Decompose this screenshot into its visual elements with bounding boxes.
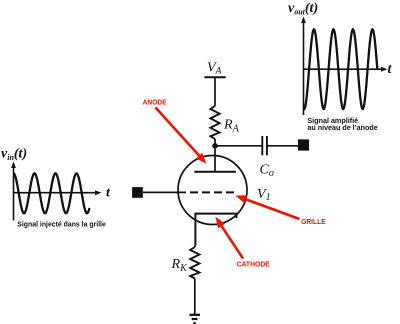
output graph x-axis xyxy=(304,67,388,72)
triode envelope V1 xyxy=(178,156,247,225)
wire R_A to anode node xyxy=(214,139,216,146)
svg-text:Signal injecté dans la grille: Signal injecté dans la grille xyxy=(17,219,106,228)
output graph y-axis xyxy=(301,17,306,116)
svg-text:t: t xyxy=(388,62,393,77)
wire input terminal to grid xyxy=(143,191,186,193)
svg-text:Co: Co xyxy=(260,163,274,180)
svg-text:au niveau de l’anode: au niveau de l’anode xyxy=(307,125,377,132)
annotation arrow CATHODE xyxy=(216,217,244,259)
svg-text:RK: RK xyxy=(171,257,189,274)
wire node to output capacitor xyxy=(215,145,262,147)
ground xyxy=(189,315,200,323)
node anode junction xyxy=(212,143,218,149)
output sine wave xyxy=(304,29,378,109)
cathode xyxy=(195,214,236,245)
wire V_A to R_A xyxy=(214,77,216,106)
capacitor C_o xyxy=(262,136,267,155)
wire capacitor to output terminal xyxy=(267,145,298,147)
resistor R_A xyxy=(210,106,219,139)
terminal input (black square) xyxy=(132,187,143,198)
wire cathode to R_K xyxy=(194,245,196,247)
input graph y-axis xyxy=(11,162,16,221)
svg-text:GRILLE: GRILLE xyxy=(301,219,326,226)
annotation arrow ANODE xyxy=(156,108,207,164)
svg-text:CATHODE: CATHODE xyxy=(237,261,271,268)
svg-text:vin(t): vin(t) xyxy=(1,147,27,163)
anode plate xyxy=(194,171,236,173)
input sine wave xyxy=(14,173,90,213)
svg-text:t: t xyxy=(106,186,111,201)
grid (dashed) xyxy=(190,191,236,193)
svg-text:ANODE: ANODE xyxy=(143,100,167,107)
supply V_A terminal bar xyxy=(204,76,225,78)
input graph x-axis xyxy=(14,190,102,195)
svg-text:RA: RA xyxy=(223,118,240,135)
wire node into tube (anode lead) xyxy=(214,146,216,172)
svg-text:VA: VA xyxy=(207,61,222,77)
wire R_K to ground xyxy=(194,279,196,315)
svg-text:vout(t): vout(t) xyxy=(288,1,318,17)
terminal output (black square) xyxy=(298,139,309,150)
annotation arrow GRILLE xyxy=(236,195,300,219)
svg-text:Signal amplifié: Signal amplifié xyxy=(307,118,358,125)
resistor R_K xyxy=(190,247,199,279)
svg-text:V1: V1 xyxy=(257,187,271,203)
